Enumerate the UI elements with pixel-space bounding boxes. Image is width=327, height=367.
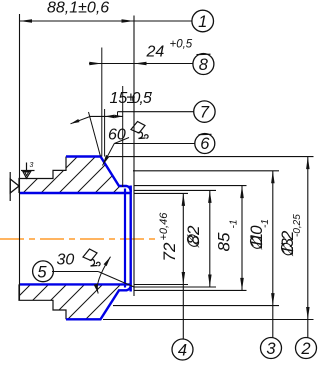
right end extension line x=134	[133, 16, 135, 297]
ext line d82 top	[134, 189, 216, 191]
ext line bore bottom	[134, 284, 188, 286]
surface finish symbol	[26, 163, 28, 172]
connector shelf to dim line	[117, 112, 119, 117]
30 degree-tol glyph	[83, 249, 100, 266]
svg-text:72: 72	[160, 242, 179, 261]
leader 5 to corner	[98, 272, 134, 288]
part stepped profile bottom (thin black)	[19, 284, 66, 319]
30-angle arc	[97, 257, 110, 294]
part stepped profile top (thin black)	[19, 157, 66, 194]
ext line d132 bottom	[103, 319, 314, 321]
dim 88,1±0,6 line	[20, 20, 193, 22]
leader 7 steep	[89, 112, 101, 157]
hatching bottom section	[0, 120, 327, 340]
svg-text:15: 15	[110, 90, 128, 107]
centerline (axis)	[0, 238, 158, 240]
svg-text:6: 6	[200, 135, 210, 153]
svg-text:85: 85	[215, 232, 234, 251]
svg-text:3: 3	[266, 340, 276, 358]
ext line x=105	[104, 109, 106, 157]
svg-text:+0,5: +0,5	[170, 39, 193, 51]
svg-text:3: 3	[30, 162, 34, 169]
balloon 1	[192, 10, 214, 32]
left face / extension line	[19, 14, 21, 300]
hatching top section	[0, 130, 327, 330]
svg-text:1: 1	[198, 13, 207, 31]
shallow angle line with arrow	[71, 117, 91, 124]
svg-text:82: 82	[184, 225, 203, 244]
svg-text:-1: -1	[260, 219, 271, 228]
ext line 85 top	[134, 185, 247, 187]
svg-text:2: 2	[300, 340, 310, 358]
dim 15 line	[90, 115, 123, 117]
leader 6 upper segment	[114, 138, 129, 144]
ext line d82 bottom	[134, 286, 216, 288]
balloon 5	[33, 261, 54, 282]
ext line bore top	[134, 192, 188, 194]
60 degree-tol glyph	[131, 122, 148, 139]
ext line 85 bottom	[134, 289, 247, 291]
svg-text:8: 8	[199, 56, 209, 74]
balloon 7 shelf	[118, 111, 195, 113]
ext line x=101	[101, 48, 103, 157]
dim d82 line	[209, 190, 211, 287]
balloon 6 shelf	[114, 143, 195, 145]
dim 24+0,5 line	[89, 63, 193, 65]
part outline bottom half (blue thick)	[66, 285, 131, 319]
internal chamfer circle edge	[124, 189, 126, 288]
dim d110-1 line (balloon 3)	[272, 171, 274, 338]
svg-text:-1: -1	[229, 220, 240, 229]
balloon 4	[172, 339, 193, 360]
ext line x=122.7	[122, 86, 124, 187]
ext line d132 top	[109, 156, 314, 158]
dim 72+0,46 line (balloon 4)	[182, 193, 184, 339]
balloon 7	[194, 101, 215, 122]
ext line d110 top	[133, 170, 279, 172]
svg-text:60: 60	[108, 127, 126, 144]
balloon 3	[261, 338, 282, 359]
dim 85-1 line	[241, 186, 243, 291]
svg-text:+0,46: +0,46	[158, 212, 170, 241]
end face edge	[129, 186, 131, 292]
bore bottom edge	[19, 283, 131, 285]
balloon 6	[195, 134, 215, 154]
svg-text:4: 4	[178, 341, 187, 359]
part outline top half (blue thick)	[66, 157, 131, 193]
ext line d110 bottom	[113, 305, 279, 307]
dim d132-0,25 line (balloon 2)	[307, 157, 309, 338]
balloon 5 shelf	[52, 271, 98, 273]
svg-text:5: 5	[37, 263, 47, 281]
svg-text:-0,25: -0,25	[292, 214, 303, 237]
svg-text:30: 30	[57, 252, 75, 269]
balloon 2	[296, 338, 317, 359]
bore top edge	[19, 192, 131, 194]
balloon 8	[193, 54, 214, 75]
datum/weld triangle symbol	[9, 172, 11, 201]
svg-text:24: 24	[146, 44, 165, 61]
leader 6 to taper	[103, 144, 115, 166]
svg-text:88,1±0,6: 88,1±0,6	[47, 0, 109, 17]
svg-text:7: 7	[200, 103, 210, 121]
